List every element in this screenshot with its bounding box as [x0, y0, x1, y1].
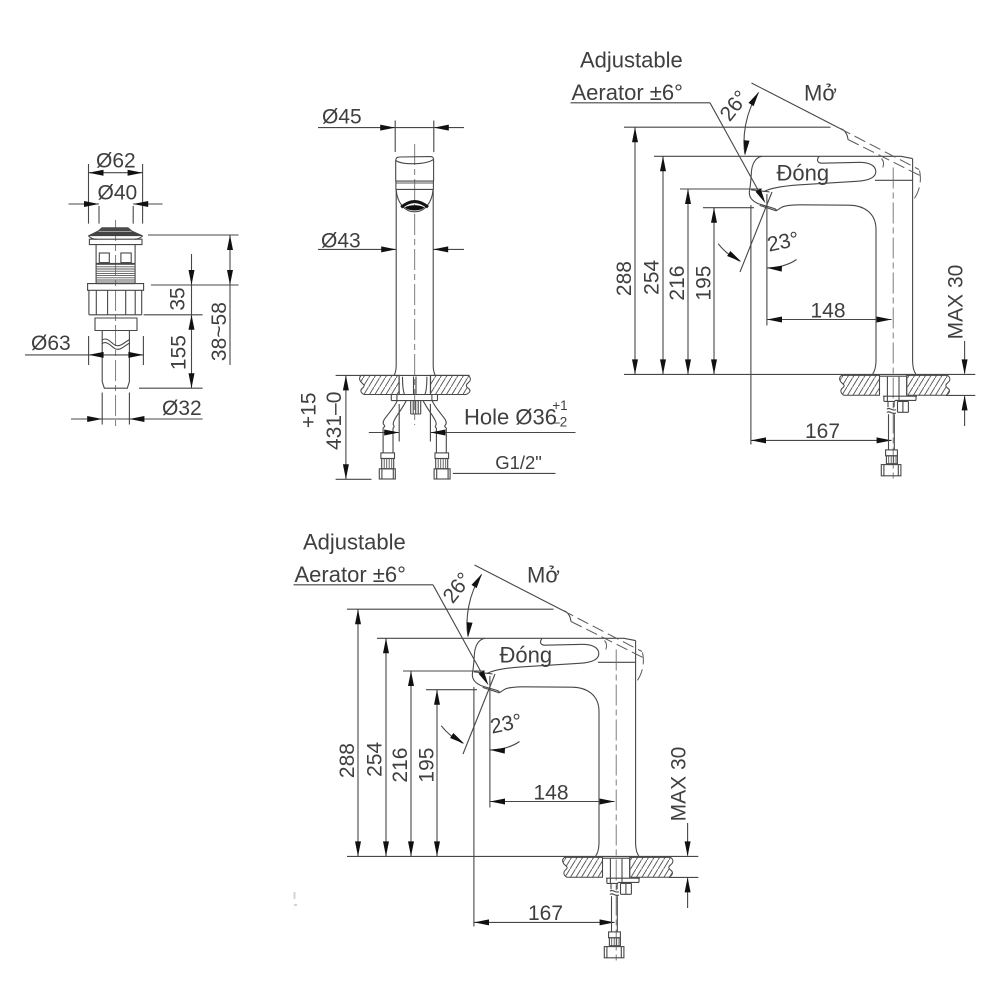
svg-text:35: 35	[166, 287, 189, 310]
svg-text:–2: –2	[552, 415, 567, 430]
svg-text:+15: +15	[298, 392, 321, 428]
svg-text:Aerator ±6°: Aerator ±6°	[572, 80, 683, 105]
svg-text:195: 195	[693, 266, 716, 301]
svg-text:38~58: 38~58	[208, 302, 231, 361]
svg-text:Ø63: Ø63	[31, 332, 71, 355]
svg-text:254: 254	[641, 259, 664, 294]
svg-text:Mở: Mở	[804, 81, 837, 106]
svg-text:Đóng: Đóng	[777, 161, 830, 186]
svg-text:Ø45: Ø45	[322, 105, 362, 128]
svg-text:+1: +1	[552, 398, 567, 413]
svg-text:288: 288	[613, 261, 636, 296]
svg-text:G1/2": G1/2"	[495, 452, 542, 473]
svg-text:Hole Ø36: Hole Ø36	[464, 405, 557, 430]
svg-text:216: 216	[666, 266, 689, 301]
svg-text:MAX 30: MAX 30	[945, 265, 968, 340]
svg-text:Ø62: Ø62	[96, 150, 136, 173]
svg-text:167: 167	[805, 420, 840, 443]
svg-text:155: 155	[168, 335, 191, 370]
svg-text:Ø40: Ø40	[98, 181, 138, 204]
svg-text:431–0: 431–0	[323, 392, 346, 450]
svg-text:148: 148	[810, 300, 845, 323]
svg-text:Ø32: Ø32	[162, 397, 202, 420]
svg-text:Adjustable: Adjustable	[580, 48, 683, 73]
